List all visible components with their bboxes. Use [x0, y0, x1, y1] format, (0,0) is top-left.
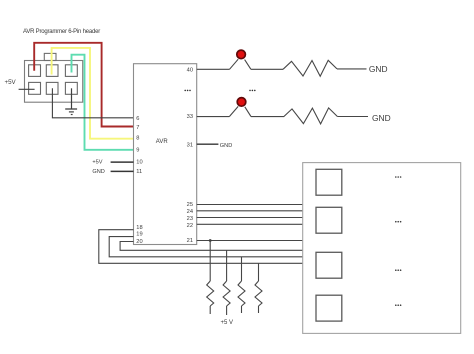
- svg-text:23: 23: [187, 216, 193, 222]
- svg-text:18: 18: [136, 225, 142, 231]
- ellipsis keypad row 1: [395, 176, 401, 178]
- svg-text:8: 8: [136, 136, 139, 142]
- pull-up resistor R4 tap wire: [226, 250, 228, 281]
- connector J1 pin 3 pad: [46, 65, 58, 77]
- wire AVR pin 18 wrap to keypad: [99, 230, 303, 264]
- wire MISO (teal) header pin5 to AVR pin 9: [72, 55, 134, 150]
- svg-text:+5V: +5V: [92, 159, 102, 165]
- svg-text:GND: GND: [369, 64, 388, 74]
- svg-text:AVR Programmer 6-Pin header: AVR Programmer 6-Pin header: [23, 29, 100, 35]
- wire AVR pin 20 wrap to keypad: [120, 242, 303, 251]
- op IC U1 AVR microcontroller body: [134, 64, 197, 245]
- wire AVR pin 24 to keypad: [197, 210, 303, 212]
- svg-text:6: 6: [136, 116, 139, 122]
- svg-text:GND: GND: [372, 113, 391, 123]
- wire AVR pin 19 wrap to keypad: [109, 237, 303, 257]
- pull-up resistor R4: [223, 281, 230, 306]
- wire AVR pin 31 to GND: [197, 143, 219, 145]
- connector J1 (AVR programmer 6-pin header) outer body: [25, 61, 83, 103]
- wire AVR pin 22 to keypad: [197, 223, 303, 225]
- pull-up resistor R6 tap wire: [258, 263, 260, 281]
- keypad module body: [303, 163, 461, 334]
- wire SCK (yellow) header pin3 to AVR pin 8: [52, 48, 134, 139]
- connector J1 pin 1 pad: [29, 65, 41, 77]
- wire LED2 to resistor R2: [251, 116, 284, 118]
- connector J1 pin 6 pad: [65, 82, 77, 94]
- junction dot pin21/R3: [209, 239, 212, 242]
- svg-text:GND: GND: [92, 169, 104, 175]
- connector J1 polarity tab: [44, 53, 56, 60]
- svg-text:21: 21: [187, 238, 193, 244]
- pull-up resistor R3 stub: [209, 306, 211, 314]
- wire GND stub to pin 11: [111, 170, 134, 172]
- keypad key 3: [316, 252, 342, 278]
- connector J1 pin 2 pad: [29, 82, 41, 94]
- wire +5V stub to pin 10: [111, 161, 134, 163]
- svg-text:7: 7: [136, 125, 139, 131]
- resistor R2: [284, 108, 338, 124]
- wire AVR pin 25 to keypad: [197, 204, 303, 206]
- ellipsis inside AVR right side: [184, 90, 190, 92]
- connector J1 pin 5 pad: [65, 65, 77, 77]
- pull-up resistor R3: [207, 281, 214, 306]
- svg-text:11: 11: [136, 169, 142, 175]
- wire header pin6 to ground: [71, 88, 73, 109]
- wire AVR pin 40 to LED1 circuit: [197, 68, 230, 70]
- wire resistor R2 to GND: [337, 116, 368, 118]
- pull-up resistor R5 stub: [241, 306, 243, 313]
- wire AVR pin 33 to LED2 circuit: [197, 116, 230, 118]
- svg-text:10: 10: [136, 159, 142, 165]
- wire MOSI (red) header pin1 to AVR pin 7: [34, 43, 133, 127]
- pull-up resistor R5: [238, 281, 245, 306]
- keypad key 4: [316, 295, 342, 321]
- connector J1 pin 4 pad: [46, 82, 58, 94]
- pull-up resistor R5 tap wire: [241, 257, 243, 281]
- ground symbol under header: [65, 109, 77, 115]
- ellipsis keypad row 3: [395, 269, 401, 271]
- wire +5V to header pin 2: [19, 88, 35, 90]
- svg-text:20: 20: [136, 239, 142, 245]
- ellipsis between LED circuits: [249, 90, 255, 92]
- LED1 tent wires: [230, 59, 251, 69]
- wire AVR pin 21 to keypad: [197, 240, 303, 242]
- LED2 tent wires: [229, 106, 251, 116]
- LED1 red indicator dot: [237, 50, 246, 59]
- svg-text:+5 V: +5 V: [221, 320, 234, 326]
- resistor R1: [283, 60, 337, 76]
- svg-text:40: 40: [187, 67, 193, 73]
- wire RESET (black) header pin4 to AVR pin 6: [52, 88, 133, 118]
- svg-text:22: 22: [187, 223, 193, 229]
- svg-text:25: 25: [187, 202, 193, 208]
- wire AVR pin 23 to keypad: [197, 217, 303, 219]
- pull-up resistor R4 stub: [226, 306, 228, 315]
- svg-text:GND: GND: [220, 143, 232, 149]
- keypad key 2: [316, 207, 342, 233]
- pull-up resistor R6 stub: [258, 306, 260, 313]
- svg-text:31: 31: [187, 142, 193, 148]
- pull-up resistor R3 tap wire: [209, 241, 211, 282]
- LED2 red indicator dot: [237, 98, 246, 107]
- svg-text:33: 33: [187, 114, 193, 120]
- wire LED1 to resistor R1: [251, 68, 283, 70]
- svg-text:24: 24: [187, 209, 193, 215]
- svg-text:19: 19: [136, 232, 142, 238]
- svg-text:+5V: +5V: [5, 79, 17, 86]
- svg-text:AVR: AVR: [156, 139, 169, 145]
- svg-text:9: 9: [136, 148, 139, 154]
- pull-up resistor R6: [255, 281, 262, 306]
- ellipsis keypad row 2: [395, 221, 401, 223]
- keypad key 1: [316, 169, 342, 195]
- wire resistor R1 to GND: [337, 68, 367, 70]
- ellipsis keypad row 4: [395, 304, 401, 306]
